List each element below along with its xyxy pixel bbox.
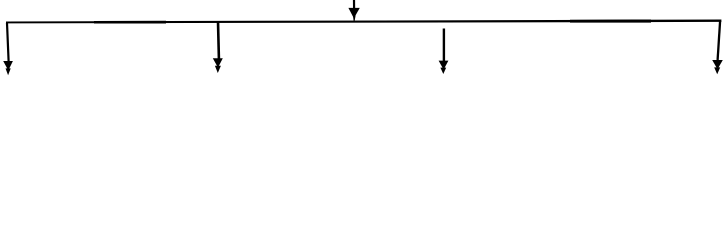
arrow top-center: shaft: [353, 0, 355, 9]
arrow 3: head: [439, 61, 449, 70]
arrow left: head tail: [6, 68, 11, 75]
arrow top-center: head: [348, 8, 359, 17]
arrow left: head: [3, 61, 13, 71]
arrow 3: shaft (detached from line): [443, 29, 445, 62]
wire: bold overlap segment right: [570, 20, 651, 23]
arrow right: head: [712, 60, 723, 69]
arrow 2: head tail: [215, 66, 221, 73]
arrow 3: head tail: [440, 68, 446, 74]
arrow left: shaft: [7, 23, 9, 61]
arrow 2: head: [213, 58, 223, 67]
wire: main horizontal line: [6, 20, 721, 24]
arrow right: shaft: [718, 21, 721, 60]
arrow 2: shaft: [217, 22, 220, 59]
arrow top-center: tail into line: [353, 16, 356, 21]
arrow right: head tail: [714, 67, 720, 74]
wire: bold overlap segment left: [94, 21, 166, 24]
